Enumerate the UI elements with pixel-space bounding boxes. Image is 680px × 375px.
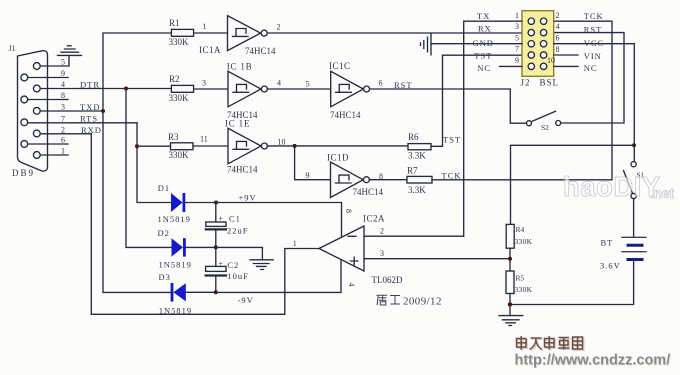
- svg-text:R7: R7: [407, 166, 418, 176]
- svg-text:1N5819: 1N5819: [158, 214, 191, 224]
- svg-text:RX: RX: [478, 24, 492, 34]
- svg-text:8: 8: [556, 45, 560, 54]
- svg-text:TCK: TCK: [584, 11, 604, 21]
- node VCC R4-feed dot: [632, 143, 636, 147]
- J1 pin 7 circle: [21, 119, 28, 126]
- svg-text:4: 4: [347, 283, 356, 287]
- svg-text:IC 1B: IC 1B: [227, 62, 253, 72]
- svg-text:9: 9: [306, 171, 310, 180]
- svg-text:1N5819: 1N5819: [159, 306, 192, 316]
- svg-text:VCC: VCC: [584, 38, 604, 48]
- wire -9V rail to IC2A pin4: [216, 260, 341, 293]
- wire pin1 stub: [40, 154, 68, 156]
- svg-text:3.3K: 3.3K: [408, 185, 426, 195]
- J1 pin 8 circle: [21, 96, 28, 103]
- svg-text:R3: R3: [168, 132, 179, 142]
- svg-text:DB9: DB9: [12, 168, 35, 178]
- svg-text:RST: RST: [394, 80, 413, 90]
- diode D3 1N5819 (reversed): [171, 283, 186, 302]
- svg-text:R4: R4: [516, 225, 525, 234]
- svg-text:NC: NC: [477, 63, 491, 73]
- svg-text:22uF: 22uF: [227, 226, 248, 236]
- svg-text:9: 9: [61, 69, 65, 78]
- node RTS-R3 dot: [135, 144, 139, 148]
- wire TXD vertical up to R1 row: [103, 33, 171, 111]
- wire S1 to battery: [633, 199, 635, 237]
- svg-text:RST: RST: [584, 25, 603, 35]
- svg-text:R6: R6: [408, 132, 419, 142]
- op-amp U IC1D 74HC14 inverter: [331, 162, 370, 198]
- wire VCC dot to R4 top: [511, 145, 634, 224]
- op-amp U IC1E 74HC14 inverter: [228, 128, 267, 164]
- svg-text:3: 3: [202, 79, 206, 88]
- svg-text:J2: J2: [521, 77, 531, 87]
- battery BT 3.6V: [622, 237, 646, 259]
- svg-text:3.3K: 3.3K: [408, 151, 426, 161]
- svg-text:TL062D: TL062D: [372, 275, 403, 285]
- J1 pin 2 circle: [33, 130, 40, 137]
- svg-text:TST: TST: [474, 51, 492, 61]
- svg-text:C2: C2: [227, 260, 239, 270]
- svg-text:2: 2: [61, 125, 65, 134]
- wire IC1E output down to IC1D input: [295, 146, 331, 180]
- svg-text:TX: TX: [477, 11, 490, 21]
- svg-text:5: 5: [61, 58, 65, 67]
- wire mid rail to ground: [216, 247, 263, 259]
- wire S2 to header RST row: [554, 33, 624, 123]
- svg-text:GND: GND: [473, 38, 494, 48]
- node DTR branch dot: [124, 87, 128, 91]
- connector J1 DB9 body: [18, 51, 48, 171]
- svg-text:+9V: +9V: [239, 193, 257, 203]
- svg-text:2: 2: [277, 23, 281, 32]
- resistor R4: [506, 224, 514, 248]
- wire VIN row pin8 stub: [554, 54, 578, 56]
- svg-text:4: 4: [277, 79, 281, 88]
- wire pin6 stub: [28, 143, 68, 145]
- J1 pin 6 circle: [21, 141, 28, 148]
- svg-text:330K: 330K: [169, 37, 190, 47]
- J1 pin 3 circle: [33, 107, 40, 114]
- wire DTR vertical down to D2: [126, 89, 172, 248]
- J1 pin 5 circle: [33, 63, 40, 70]
- wire GND row pin5: [431, 43, 522, 45]
- wire R5 to ground: [509, 294, 511, 316]
- ground at DB9 pin 5: [58, 46, 82, 56]
- switch S2: [527, 111, 561, 125]
- wire RST from IC1C to S2: [370, 89, 527, 123]
- wire IC2A output pin1: [285, 249, 319, 315]
- wire IC2A pin3 input: [364, 258, 510, 260]
- svg-text:9: 9: [515, 56, 519, 65]
- svg-text:2: 2: [380, 226, 384, 235]
- wire TX row pin1 to IC2A pin2 vertical: [464, 21, 522, 236]
- wire +9V rail to IC2A pin8: [216, 203, 342, 238]
- svg-text:D3: D3: [159, 272, 171, 282]
- node TXD branch dot: [101, 109, 105, 113]
- resistor R7: [407, 176, 432, 183]
- svg-text:RXD: RXD: [81, 125, 102, 135]
- svg-text:1: 1: [61, 147, 65, 156]
- resistor R5: [506, 271, 514, 294]
- wire RXD row (pin2): [40, 133, 91, 135]
- svg-text:6: 6: [61, 136, 65, 145]
- switch S1: [624, 162, 637, 199]
- svg-text:DTR: DTR: [80, 79, 100, 89]
- svg-text:5: 5: [515, 33, 519, 42]
- ground at capacitor mid rail: [250, 260, 273, 270]
- node mid rail dot: [214, 245, 218, 249]
- capacitor C2 10uF: [206, 247, 226, 292]
- svg-text:http://www.cndzz.com/: http://www.cndzz.com/: [515, 353, 671, 369]
- svg-text:330K: 330K: [515, 285, 533, 294]
- svg-text:74HC14: 74HC14: [330, 110, 361, 120]
- wire TXD row (pin3): [40, 110, 103, 112]
- wire IC1A output to header RX row: [267, 32, 522, 34]
- op-amp U IC2A TL062D: [319, 226, 364, 271]
- svg-text:330K: 330K: [169, 150, 190, 160]
- signature tang gong 2009/12: [377, 295, 442, 307]
- wire D3 to -9V rail: [186, 291, 216, 293]
- svg-text:.net: .net: [650, 186, 675, 201]
- svg-text:IC1C: IC1C: [329, 61, 351, 71]
- wire battery to bottom return: [510, 261, 634, 305]
- J1 pin 4 circle: [33, 85, 40, 92]
- site name text (CJK): [517, 336, 584, 351]
- svg-text:74HC14: 74HC14: [227, 165, 258, 175]
- wire pin9 stub: [28, 77, 68, 79]
- J2 pin circles: [528, 18, 547, 70]
- wire pin8 stub: [28, 99, 68, 101]
- wire IC1B to IC1C: [267, 88, 330, 90]
- wire R3 to IC1E: [193, 145, 228, 147]
- op-amp U IC1C 74HC14 inverter: [331, 71, 370, 107]
- svg-text:2: 2: [556, 11, 560, 20]
- svg-text:TST: TST: [443, 135, 461, 145]
- capacitor C1 22uF: [206, 203, 226, 248]
- svg-text:5: 5: [306, 80, 310, 89]
- svg-text:4: 4: [556, 22, 560, 31]
- svg-text:IC1D: IC1D: [327, 153, 349, 163]
- diode D2 1N5819: [172, 238, 186, 256]
- op-amp U IC1B 74HC14 inverter: [228, 71, 267, 107]
- svg-text:2009/12: 2009/12: [403, 296, 442, 308]
- svg-text:7: 7: [61, 114, 65, 123]
- svg-text:3: 3: [380, 249, 384, 258]
- wire DTR row (pin4 to R2): [40, 88, 171, 90]
- watermark haoDIY.net: [563, 171, 675, 202]
- svg-text:10: 10: [278, 137, 286, 146]
- svg-text:BSL: BSL: [540, 77, 560, 87]
- J1 pin 1 circle: [33, 152, 40, 159]
- svg-text:1: 1: [515, 11, 519, 20]
- wire pin5 to ground: [40, 56, 69, 66]
- ground at R5 bottom: [499, 316, 523, 326]
- svg-text:330K: 330K: [515, 237, 533, 246]
- wire NC row pin10 stub: [554, 65, 578, 67]
- wire RTS vertical down to D1: [137, 123, 171, 203]
- svg-text:10: 10: [547, 56, 555, 65]
- resistor R2: [171, 85, 193, 92]
- svg-text:7: 7: [515, 45, 519, 54]
- wire TXD vertical down to D3: [103, 111, 171, 292]
- svg-text:haoDIY: haoDIY: [563, 171, 661, 202]
- svg-text:RTS: RTS: [80, 114, 98, 124]
- svg-text:R1: R1: [169, 18, 180, 28]
- wire R6 up to header TST row: [431, 55, 522, 146]
- svg-text:-9V: -9V: [238, 295, 254, 305]
- J1 pin 9 circle: [21, 74, 28, 81]
- svg-text:IC 1E: IC 1E: [225, 119, 250, 129]
- svg-text:74HC14: 74HC14: [245, 46, 276, 56]
- svg-text:S2: S2: [541, 123, 549, 132]
- svg-text:J1: J1: [9, 44, 16, 53]
- resistor R1: [171, 29, 193, 36]
- svg-text:3: 3: [61, 103, 65, 112]
- svg-text:VIN: VIN: [584, 51, 602, 61]
- svg-text:NC: NC: [584, 63, 598, 73]
- node IC1E output dot: [293, 144, 297, 148]
- svg-text:11: 11: [200, 134, 208, 143]
- resistor R6: [408, 144, 431, 150]
- svg-text:1: 1: [203, 22, 207, 31]
- svg-text:TCK: TCK: [442, 171, 462, 181]
- svg-text:1: 1: [293, 239, 297, 248]
- svg-text:IC2A: IC2A: [363, 213, 385, 223]
- svg-text:1N5819: 1N5819: [159, 259, 192, 269]
- site url text: [515, 353, 672, 370]
- wire IC1E output to R6: [267, 145, 408, 147]
- wire VCC row pin6 down to battery branch: [554, 44, 635, 162]
- svg-text:8: 8: [379, 172, 383, 181]
- svg-text:74HC14: 74HC14: [353, 187, 384, 197]
- svg-text:3.6V: 3.6V: [600, 261, 621, 271]
- wire RTS dot to R3: [137, 145, 171, 147]
- svg-text:8: 8: [344, 209, 353, 213]
- svg-text:6: 6: [556, 33, 560, 42]
- svg-text:R2: R2: [169, 74, 180, 84]
- wire IC2A pin2 input: [364, 235, 464, 237]
- diode D1 1N5819: [171, 193, 185, 212]
- svg-text:3: 3: [515, 22, 519, 31]
- wire D1 to +9V rail: [185, 202, 216, 204]
- node R4 R5 divider dot: [508, 257, 512, 261]
- svg-text:6: 6: [379, 79, 383, 88]
- svg-text:D1: D1: [158, 183, 170, 193]
- resistor R3: [171, 143, 194, 150]
- svg-text:D2: D2: [158, 228, 170, 238]
- wire R2 to IC1B: [194, 88, 228, 90]
- svg-text:BT: BT: [601, 238, 614, 248]
- op-amp U IC1A 74HC14 inverter: [228, 16, 268, 51]
- wire R1 to IC1A: [194, 32, 228, 34]
- svg-text:330K: 330K: [169, 93, 190, 103]
- svg-text:IC1A: IC1A: [199, 45, 221, 55]
- wire NC row pin9 stub: [500, 65, 522, 67]
- wire D2 to mid rail: [186, 246, 216, 248]
- svg-text:TXD: TXD: [80, 102, 100, 112]
- connector J2 BSL header body: [522, 11, 554, 77]
- node -9V rail dot: [214, 290, 218, 294]
- svg-text:R5: R5: [516, 274, 525, 283]
- svg-text:8: 8: [61, 91, 65, 100]
- svg-text:C1: C1: [229, 213, 241, 223]
- node ground return dot: [508, 302, 512, 306]
- wire IC1D output to R7: [369, 179, 407, 181]
- wire RTS row (pin7): [28, 122, 137, 124]
- svg-text:10uF: 10uF: [227, 271, 248, 281]
- wire RXD vertical down to opamp output return: [91, 134, 284, 314]
- ground at header GND pin (rotated): [421, 34, 432, 55]
- svg-text:+: +: [219, 214, 224, 223]
- wire TCK from R7 to header TCK row: [432, 21, 612, 180]
- svg-text:4: 4: [61, 80, 65, 89]
- wire R4 to R5: [509, 248, 511, 271]
- svg-text:+: +: [219, 259, 224, 268]
- node +9V rail dot: [214, 201, 218, 205]
